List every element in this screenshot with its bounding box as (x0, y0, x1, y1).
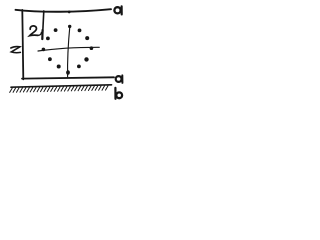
winding dot D5 (48, 57, 52, 61)
label 2 tail hook (38, 32, 41, 35)
dot on horizontal axis left (42, 48, 46, 52)
axis horizontal (38, 47, 99, 51)
winding dot D7 (84, 57, 88, 61)
winding dot D4 (85, 36, 89, 40)
winding dot D1 (54, 28, 58, 32)
ground hatching (10, 86, 108, 93)
winding lead stub (42, 11, 43, 39)
axis vertical (68, 26, 70, 77)
dot on vertical axis bottom (66, 70, 70, 75)
wire top to terminal a (16, 9, 112, 12)
wire bottom to terminal a (22, 77, 114, 78)
terminal label b (115, 88, 122, 99)
winding dot D6 (57, 65, 61, 69)
winding dot D3 (78, 29, 82, 33)
winding dot D2 (46, 37, 50, 41)
ground line (11, 85, 112, 87)
junction dot on top wire (68, 11, 71, 14)
dot on horizontal axis right (90, 46, 94, 50)
dot on vertical axis top (68, 25, 71, 28)
terminal label a top (114, 6, 121, 14)
winding dot D8 (77, 65, 81, 69)
wire left vertical (22, 10, 23, 80)
label z (left) (11, 47, 21, 53)
label 2 (30, 26, 38, 36)
terminal label a lower (116, 75, 123, 83)
